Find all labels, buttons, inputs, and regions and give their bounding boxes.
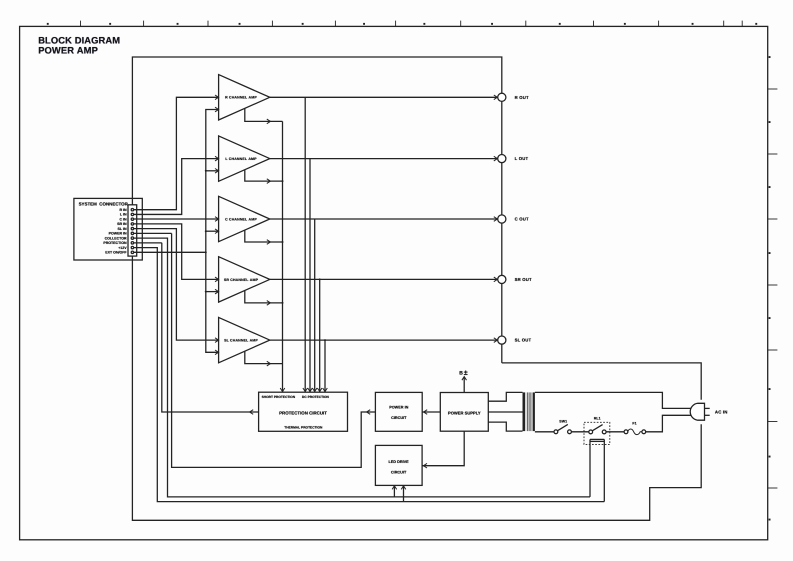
svg-text:C OUT: C OUT: [515, 217, 529, 222]
arrowhead R sense into protection: [303, 388, 308, 392]
wire SL amp feedback branch: [245, 351, 283, 363]
arrowhead aux input SR amp: [215, 289, 219, 294]
wire L output sense tap: [309, 159, 311, 393]
arrowhead feedback bus into protection: [280, 388, 285, 392]
arrowhead R feedback: [267, 119, 271, 124]
op-amp SL CHANNEL AMP: [219, 317, 270, 362]
wire EXT ON/OFF pin to aux bus: [134, 251, 206, 253]
block POWER SUPPLY: [440, 393, 488, 432]
pin 7 COLLECTOR: [131, 237, 133, 239]
wire +12V pin to relay coil: [134, 248, 605, 502]
svg-text:THERMAL PROTECTION: THERMAL PROTECTION: [284, 425, 323, 429]
svg-text:C IN: C IN: [119, 217, 127, 221]
wire chain to AC return lower: [132, 256, 701, 520]
junction EXT ON/OFF on aux bus: [205, 251, 207, 253]
wire SR IN pin to SR amp: [134, 224, 218, 279]
transformer T1 core: [526, 392, 528, 431]
svg-text:SL CHANNEL AMP: SL CHANNEL AMP: [224, 338, 258, 342]
fuse F1: [624, 430, 628, 434]
svg-text:L CHANNEL AMP: L CHANNEL AMP: [225, 157, 257, 161]
arrowhead main input R amp: [215, 95, 219, 100]
pin 8 PROTECTION: [131, 242, 133, 244]
junction C feedback join: [282, 241, 284, 243]
arrowhead into LED drive: [423, 463, 427, 468]
pin 6 POWER IN: [131, 232, 133, 234]
svg-text:C CHANNEL AMP: C CHANNEL AMP: [225, 217, 257, 221]
svg-text:POWER IN: POWER IN: [109, 232, 127, 236]
wire power supply to power-in: [422, 411, 440, 413]
arrowhead aux input R amp: [215, 107, 219, 112]
wire protection to PROTECTION pin: [162, 243, 259, 412]
wire SL output sense tap: [324, 340, 326, 392]
wire R amp feedback branch: [245, 108, 283, 121]
svg-text:L IN: L IN: [120, 213, 127, 217]
wire C IN pin to C amp: [134, 218, 218, 220]
transformer T1 secondary winding: [523, 392, 526, 431]
wire SL amp output to SL OUT jack: [270, 339, 498, 341]
svg-text:R IN: R IN: [119, 208, 127, 212]
svg-text:R CHANNEL AMP: R CHANNEL AMP: [225, 96, 257, 100]
node B plus/minus output: [463, 377, 465, 393]
pin 2 L IN: [131, 213, 133, 215]
svg-text:PROTECTION: PROTECTION: [103, 241, 127, 245]
svg-text:CIRCUIT: CIRCUIT: [391, 471, 407, 475]
junction L feedback join: [282, 180, 284, 182]
pin 10 EXT ON/OFF: [131, 251, 133, 253]
arrowhead L feedback: [267, 179, 271, 184]
arrowhead into SL OUT jack: [494, 338, 498, 343]
plug prongs: [705, 407, 710, 409]
wire power supply to transformer bottom: [488, 422, 522, 431]
jack L OUT: [498, 155, 506, 163]
wire R amp output to R OUT jack: [270, 96, 498, 98]
connector J1 SYSTEM CONNECTOR box: [74, 198, 142, 260]
wire COLLECTOR pin to relay coil: [134, 238, 590, 497]
switch SW1: [554, 430, 558, 434]
plug AC IN: [690, 403, 704, 420]
wire POWER IN pin lead: [134, 232, 172, 234]
wire L amp feedback branch: [245, 170, 283, 181]
svg-text:RL1: RL1: [594, 417, 601, 421]
wire L amp output to L OUT jack: [270, 158, 498, 160]
svg-text:±: ±: [464, 368, 468, 377]
pin 3 C IN: [131, 218, 133, 220]
wire C amp feedback branch: [245, 230, 283, 242]
svg-text:PROTECTION CIRCUIT: PROTECTION CIRCUIT: [279, 410, 327, 415]
arrowhead main input SR amp: [215, 277, 219, 282]
svg-text:SR IN: SR IN: [117, 222, 127, 226]
wire common feedback bus to protection: [282, 121, 284, 392]
wire +12V line branch into LED drive: [403, 486, 405, 502]
arrowhead SL sense into protection: [323, 388, 328, 392]
junction aux bus L: [205, 170, 207, 172]
wire aux input branch C amp: [206, 230, 218, 232]
wire SL IN pin to SL amp: [134, 229, 218, 340]
svg-text:SR OUT: SR OUT: [515, 277, 532, 282]
wire C amp output to C OUT jack: [270, 218, 498, 220]
svg-text:+12V: +12V: [118, 246, 127, 250]
junction aux bus SR: [205, 291, 207, 293]
wire R output sense tap: [304, 97, 306, 392]
jack R OUT: [498, 93, 506, 101]
wire R IN pin to R amp: [134, 97, 218, 209]
wire power supply to transformer top: [488, 392, 522, 401]
relay RL1 coil: [590, 438, 604, 440]
wire RL1 to F1: [606, 431, 625, 433]
pin 4 SR IN: [131, 223, 133, 225]
wire coil left leg: [589, 439, 591, 497]
wire coil right leg: [603, 439, 605, 501]
op-amp SR CHANNEL AMP: [219, 257, 270, 302]
wire COLLECTOR line branch into LED drive: [393, 486, 395, 497]
svg-text:EXT ON/OFF: EXT ON/OFF: [105, 251, 127, 255]
junction SR sense tap: [319, 278, 321, 280]
wire SR amp feedback branch: [245, 291, 283, 303]
wire PROTECTION pin lead: [134, 242, 162, 244]
wire aux input branch L amp: [206, 170, 218, 172]
relay RL1 contact: [589, 430, 593, 434]
wire transformer primary top to plug: [535, 392, 692, 408]
arrowhead SR sense into protection: [317, 388, 322, 392]
svg-text:SL IN: SL IN: [118, 227, 128, 231]
arrowhead main input C amp: [215, 217, 219, 222]
wire transformer primary bottom to SW1: [535, 431, 554, 433]
wire SW1 to RL1: [571, 431, 589, 433]
arrowhead power-in out: [367, 410, 371, 415]
svg-text:L OUT: L OUT: [515, 156, 529, 161]
svg-text:COLLECTOR: COLLECTOR: [105, 236, 127, 240]
jack SR OUT: [498, 275, 506, 283]
arrowhead L sense into protection: [308, 388, 313, 392]
wire L IN pin to L amp: [134, 159, 218, 215]
junction aux bus C: [205, 230, 207, 232]
arrowhead aux input C amp: [215, 229, 219, 234]
svg-text:SL OUT: SL OUT: [515, 338, 532, 343]
block POWER IN CIRCUIT: [375, 392, 422, 431]
pin 1 R IN: [131, 209, 133, 211]
wire power-in to POWER IN pin: [172, 233, 376, 467]
svg-text:SYSTEM CONNECTOR: SYSTEM CONNECTOR: [79, 201, 129, 206]
right ruler ticks: [768, 56, 778, 520]
jack C OUT: [498, 215, 506, 223]
svg-text:DC PROTECTION: DC PROTECTION: [302, 395, 330, 399]
op-amp L CHANNEL AMP: [219, 136, 270, 181]
arrowhead into L OUT jack: [494, 156, 498, 161]
arrowhead into power-in: [424, 410, 428, 415]
svg-text:B: B: [459, 370, 463, 376]
svg-text:F1: F1: [632, 422, 636, 426]
svg-text:AC IN: AC IN: [715, 409, 728, 414]
arrowhead aux input L amp: [215, 169, 219, 174]
arrowhead protection out: [250, 410, 254, 415]
svg-text:SHORT PROTECTION: SHORT PROTECTION: [262, 395, 296, 399]
wire chain to AC return upper: [502, 363, 701, 400]
wire top rail: [132, 57, 501, 205]
wire aux input branch SR amp: [206, 291, 218, 293]
wire SR output sense tap: [319, 279, 321, 392]
wire C output sense tap: [314, 219, 316, 392]
pin 5 SL IN: [131, 227, 133, 229]
wire power supply down to LED drive: [422, 431, 464, 466]
arrowhead SR feedback: [267, 301, 271, 306]
junction SR feedback join: [282, 302, 284, 304]
wire output jack chain: [501, 97, 503, 363]
arrowhead main input L amp: [215, 156, 219, 161]
wire SR amp output to SR OUT jack: [270, 278, 498, 280]
svg-text:POWER SUPPLY: POWER SUPPLY: [448, 411, 481, 416]
arrowhead SL feedback: [267, 361, 271, 366]
junction SL sense tap: [324, 339, 326, 341]
arrowhead main input SL amp: [215, 338, 219, 343]
wire power supply to transformer mid: [488, 411, 522, 413]
svg-text:SR CHANNEL AMP: SR CHANNEL AMP: [224, 278, 259, 282]
wire aux input bus vertical: [206, 110, 218, 353]
arrowhead into R OUT jack: [494, 95, 498, 100]
svg-text:R OUT: R OUT: [515, 95, 529, 100]
svg-text:POWER IN: POWER IN: [389, 405, 408, 409]
svg-text:LED DRIVE: LED DRIVE: [388, 460, 409, 464]
jack SL OUT: [498, 336, 506, 344]
relay RL1 dashed enclosure: [584, 422, 610, 444]
arrowhead C sense into protection: [312, 388, 317, 392]
pin 9 +12V: [131, 246, 133, 248]
arrowhead aux input SL amp: [215, 350, 219, 355]
arrowhead C feedback: [267, 240, 271, 245]
op-amp R CHANNEL AMP: [219, 75, 270, 120]
arrowhead into C OUT jack: [494, 217, 498, 222]
op-amp C CHANNEL AMP: [219, 196, 270, 241]
svg-text:POWER AMP: POWER AMP: [38, 45, 98, 56]
connector pin strip: [128, 205, 137, 256]
transformer T1 primary winding: [533, 392, 535, 431]
top ruler ticks: [47, 21, 757, 27]
block PROTECTION CIRCUIT: [259, 392, 348, 431]
svg-text:SW1: SW1: [559, 420, 567, 424]
block LED DRIVE CIRCUIT: [375, 445, 422, 485]
svg-text:CIRCUIT: CIRCUIT: [391, 416, 407, 420]
wire F1 to plug: [645, 415, 691, 432]
arrowhead into SR OUT jack: [494, 277, 498, 282]
